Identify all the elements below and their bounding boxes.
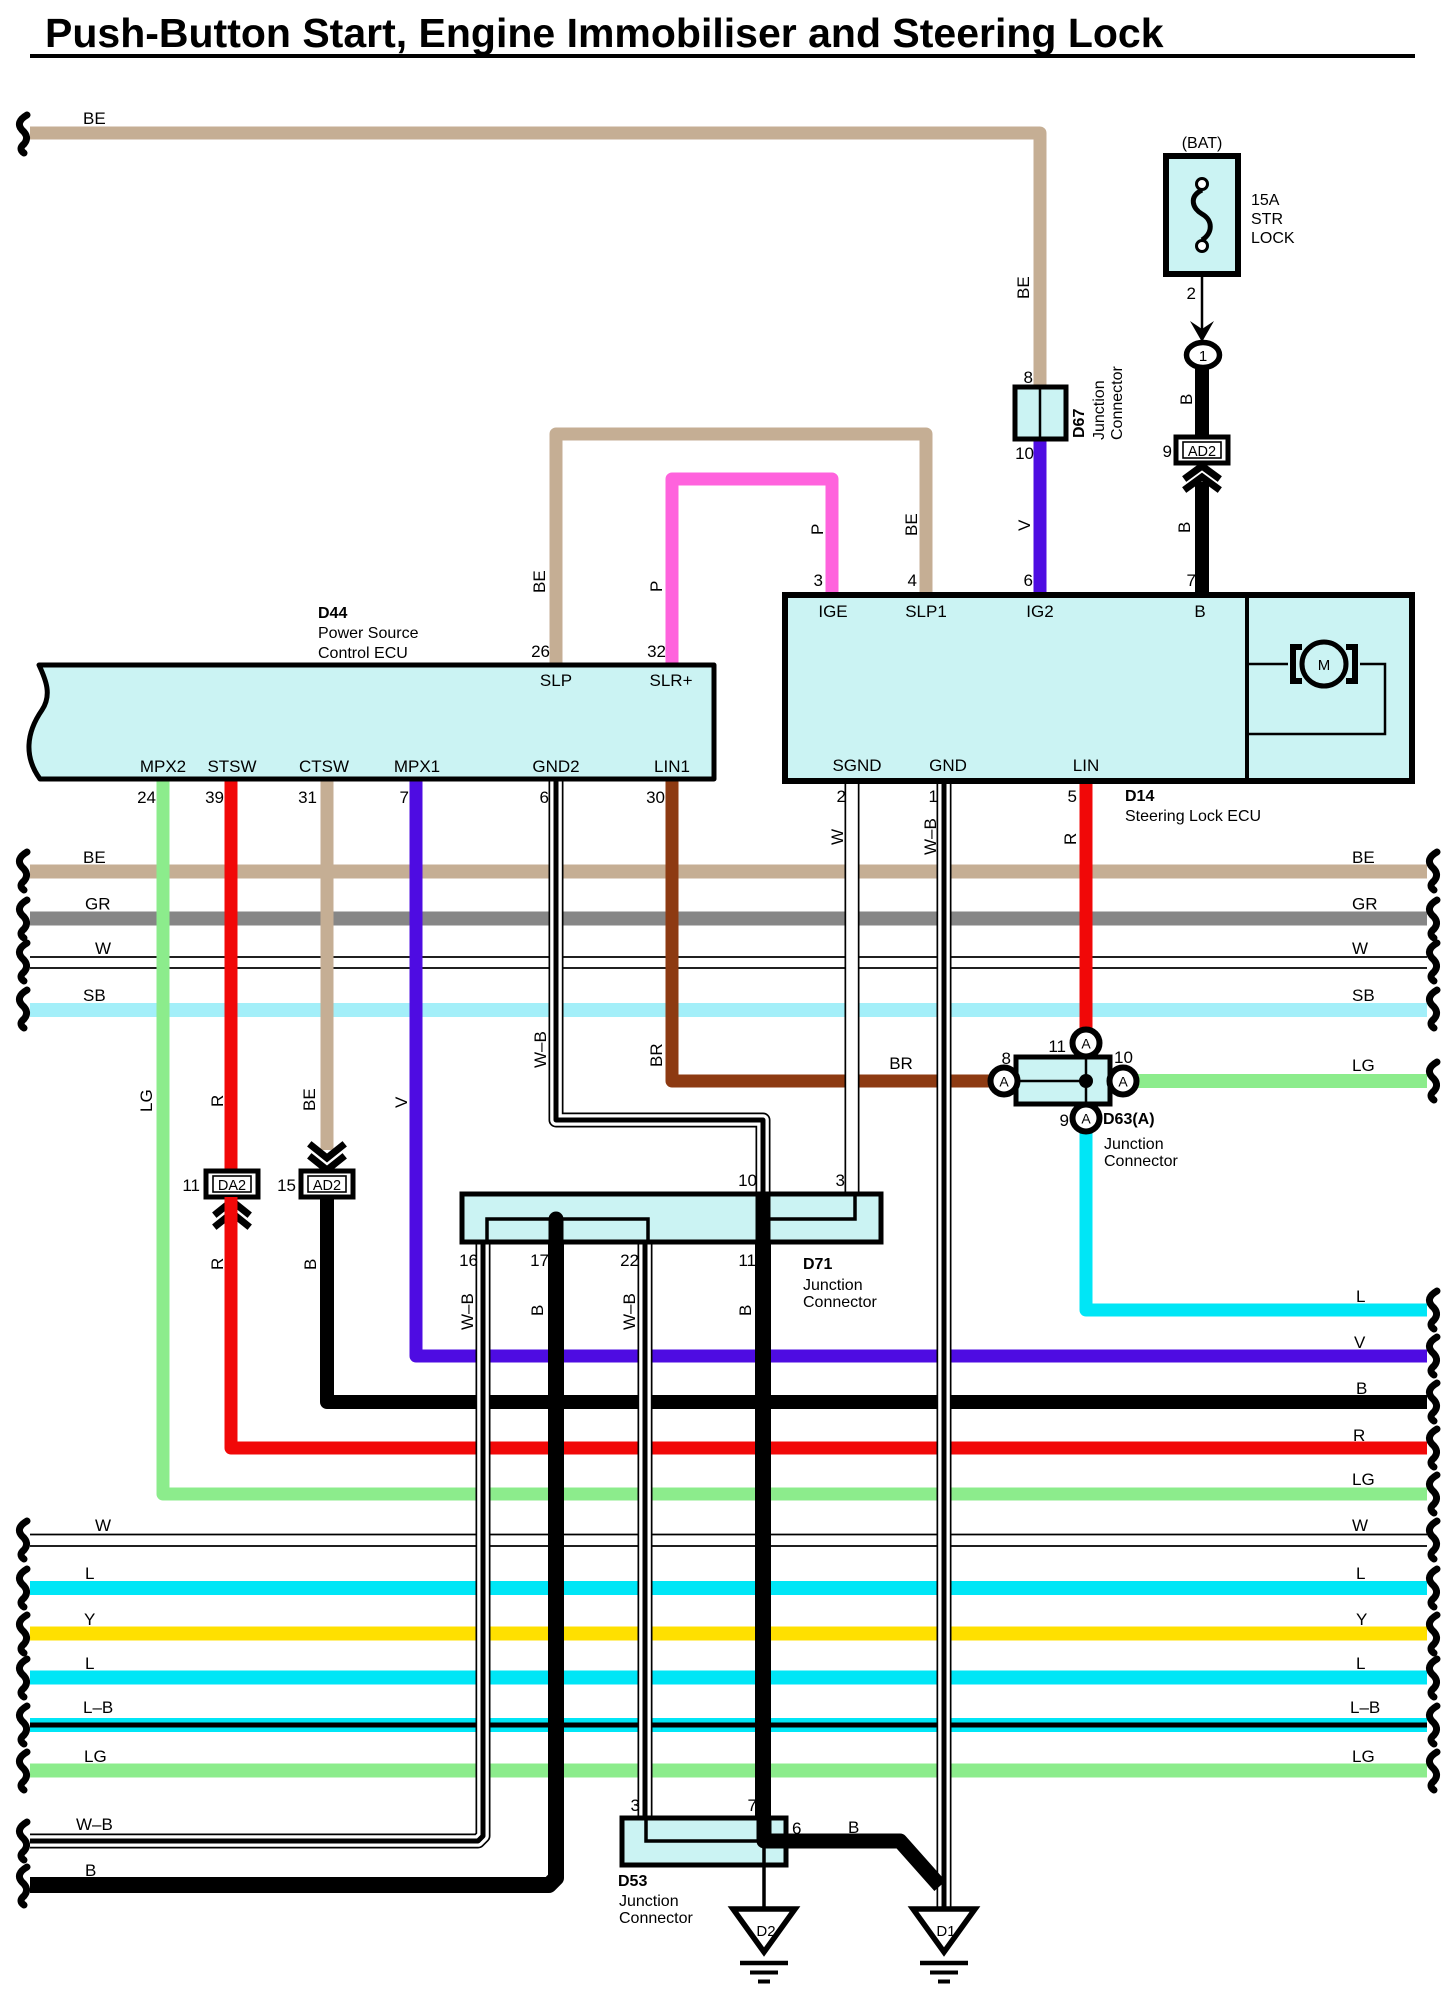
svg-text:15A: 15A: [1251, 192, 1280, 209]
svg-text:10: 10: [1114, 1048, 1133, 1067]
svg-text:STR: STR: [1251, 211, 1283, 228]
squiggle L right end: [1429, 1291, 1437, 1329]
svg-text:W–B: W–B: [620, 1293, 639, 1330]
junction D71 internal B stub: [549, 1219, 564, 1242]
wire BR LIN1 path: [672, 779, 995, 1081]
svg-text:M: M: [1318, 657, 1331, 674]
svg-text:11: 11: [1048, 1037, 1066, 1056]
svg-text:9: 9: [1060, 1111, 1069, 1130]
svg-text:Connector: Connector: [1109, 366, 1126, 440]
squiggle BE left: [19, 852, 27, 890]
svg-text:W: W: [1352, 939, 1368, 958]
wire GR bus: [30, 912, 1427, 926]
svg-text:Junction: Junction: [619, 1893, 679, 1910]
svg-text:A: A: [999, 1074, 1009, 1090]
squiggle W left: [19, 943, 27, 981]
svg-text:CTSW: CTSW: [299, 757, 349, 776]
svg-text:3: 3: [631, 1796, 640, 1815]
svg-text:Control ECU: Control ECU: [318, 645, 408, 662]
chevrons up below DA2: [217, 1201, 247, 1213]
squiggle Y left: [19, 1615, 27, 1653]
svg-text:6: 6: [792, 1819, 801, 1838]
squiggle GR left: [19, 900, 27, 938]
svg-text:L: L: [1356, 1564, 1365, 1583]
svg-text:R: R: [208, 1258, 227, 1270]
ecu D44 Power Source Control ECU: [29, 665, 714, 779]
svg-text:(BAT): (BAT): [1182, 135, 1223, 152]
svg-text:LG: LG: [1352, 1470, 1375, 1489]
junction D71 internal B through: [756, 1194, 771, 1242]
svg-text:GND: GND: [929, 756, 967, 775]
svg-text:A: A: [1081, 1111, 1091, 1127]
ground D2: [733, 1909, 795, 1952]
svg-text:26: 26: [531, 642, 550, 661]
svg-text:L: L: [85, 1654, 94, 1673]
svg-text:A: A: [1118, 1074, 1128, 1090]
squiggle Y right: [1429, 1615, 1437, 1653]
wire D53 to D2 ground: [762, 1841, 766, 1909]
connector AD2 mid: [301, 1171, 353, 1197]
squiggle SB left: [19, 990, 27, 1028]
svg-text:Power Source: Power Source: [318, 625, 419, 642]
svg-text:BE: BE: [1352, 848, 1375, 867]
svg-text:A: A: [1081, 1036, 1091, 1052]
svg-text:B: B: [1356, 1379, 1367, 1398]
svg-text:LG: LG: [1352, 1747, 1375, 1766]
svg-text:Push-Button Start, Engine Immo: Push-Button Start, Engine Immobiliser an…: [45, 10, 1164, 56]
svg-text:LIN: LIN: [1073, 756, 1099, 775]
svg-text:1: 1: [929, 787, 938, 806]
junction D63A circle bottom: [1073, 1105, 1100, 1132]
svg-text:BE: BE: [530, 570, 549, 593]
svg-text:V: V: [1354, 1333, 1366, 1352]
wire BE top horizontal to D67: [30, 133, 1040, 390]
wire L D63 down and right: [1086, 1125, 1427, 1310]
svg-text:Junction: Junction: [1091, 380, 1108, 440]
junction D71 internal thin right: [763, 1194, 855, 1219]
junction D53 internal thin: [646, 1818, 764, 1841]
squiggle LG right end: [1429, 1475, 1437, 1513]
squiggle BE top left: [19, 115, 27, 153]
wire B D71 pin17 to bus: [30, 1244, 556, 1885]
fuse 15A STR LOCK: [1166, 156, 1238, 274]
svg-text:W: W: [95, 939, 111, 958]
svg-text:D14: D14: [1125, 788, 1154, 805]
junction D71 dot 2: [756, 1212, 771, 1227]
wire R D14 LIN to D63: [1080, 779, 1093, 1036]
svg-text:IG2: IG2: [1026, 602, 1053, 621]
svg-text:L: L: [85, 1564, 94, 1583]
wire BE CTSW: [321, 779, 334, 1150]
svg-text:V: V: [392, 1096, 411, 1108]
junction D53 dot: [757, 1834, 772, 1849]
svg-text:31: 31: [298, 788, 317, 807]
svg-text:STSW: STSW: [207, 757, 256, 776]
junction D63A dot: [1079, 1074, 1093, 1088]
svg-text:LIN1: LIN1: [654, 757, 690, 776]
svg-text:2: 2: [1187, 284, 1196, 303]
svg-text:LG: LG: [84, 1747, 107, 1766]
wire R DA2 down: [231, 1197, 1427, 1448]
svg-text:22: 22: [620, 1251, 639, 1270]
chevrons up below AD2 top: [1187, 466, 1217, 477]
svg-text:BE: BE: [300, 1088, 319, 1111]
wire LG bus right: [1120, 1074, 1427, 1088]
squiggle W-B bus left: [19, 1822, 27, 1860]
junction D67: [1015, 387, 1066, 439]
svg-text:BE: BE: [1014, 276, 1033, 299]
svg-text:39: 39: [205, 788, 224, 807]
squiggle LG lower right: [1429, 1752, 1437, 1790]
svg-text:P: P: [808, 524, 827, 535]
svg-text:7: 7: [400, 788, 409, 807]
svg-text:L–B: L–B: [83, 1698, 113, 1717]
svg-text:LG: LG: [1352, 1056, 1375, 1075]
svg-text:2: 2: [837, 787, 846, 806]
squiggle L-B left: [19, 1706, 27, 1744]
wire LG MPX2 path: [163, 779, 1427, 1494]
svg-text:11: 11: [182, 1176, 200, 1195]
svg-text:DA2: DA2: [218, 1178, 246, 1194]
squiggle BE right: [1429, 852, 1437, 890]
svg-text:17: 17: [530, 1251, 549, 1270]
svg-text:Y: Y: [1356, 1610, 1367, 1629]
svg-text:D67: D67: [1071, 409, 1088, 438]
svg-text:9: 9: [1163, 442, 1172, 461]
svg-text:W: W: [828, 829, 847, 845]
squiggle L2 left: [19, 1659, 27, 1697]
svg-text:BE: BE: [83, 109, 106, 128]
squiggle W lower right: [1429, 1521, 1437, 1559]
ecu D14 Steering Lock ECU: [785, 595, 1412, 781]
wire BE bus: [30, 865, 1427, 879]
oval connector 1: [1187, 343, 1220, 368]
svg-text:7: 7: [748, 1796, 757, 1815]
svg-text:D1: D1: [936, 1923, 955, 1940]
squiggle B bus left: [19, 1867, 27, 1905]
svg-text:3: 3: [814, 571, 823, 590]
svg-text:6: 6: [540, 788, 549, 807]
motor M circuit: [1249, 663, 1288, 666]
svg-text:D53: D53: [618, 1873, 647, 1890]
svg-text:SGND: SGND: [832, 756, 881, 775]
svg-text:SLR+: SLR+: [650, 671, 693, 690]
svg-text:B: B: [736, 1305, 755, 1316]
wire W-B GND to D1: [937, 779, 952, 1907]
svg-text:AD2: AD2: [313, 1178, 341, 1194]
squiggle W right: [1429, 943, 1437, 981]
wire V D67 to D14 IG2: [1034, 437, 1047, 597]
svg-text:D71: D71: [803, 1256, 832, 1273]
wire W bus upper: [30, 956, 1427, 958]
svg-text:B: B: [1175, 522, 1194, 533]
svg-text:LG: LG: [137, 1089, 156, 1112]
svg-text:15: 15: [277, 1176, 296, 1195]
svg-text:L: L: [1356, 1287, 1365, 1306]
svg-text:11: 11: [738, 1251, 756, 1270]
svg-text:MPX1: MPX1: [394, 757, 440, 776]
svg-text:B: B: [848, 1818, 859, 1837]
svg-text:16: 16: [459, 1251, 478, 1270]
svg-text:LOCK: LOCK: [1251, 230, 1295, 247]
svg-text:Junction: Junction: [803, 1277, 863, 1294]
svg-text:7: 7: [1187, 571, 1196, 590]
squiggle L-B right: [1429, 1706, 1437, 1744]
svg-text:W–B: W–B: [76, 1815, 113, 1834]
svg-text:Connector: Connector: [803, 1294, 877, 1311]
junction D63A circle top: [1073, 1030, 1100, 1057]
svg-text:Connector: Connector: [619, 1910, 693, 1927]
squiggle B right end: [1429, 1383, 1437, 1421]
squiggle GR right: [1429, 900, 1437, 938]
svg-text:L–B: L–B: [1350, 1698, 1380, 1717]
wire L bus 2: [30, 1671, 1427, 1685]
wire V MPX1 path: [416, 779, 1427, 1356]
squiggle LG lower left: [19, 1752, 27, 1790]
svg-text:5: 5: [1068, 787, 1077, 806]
wire BE D44 SLP to D14 SLP1: [556, 434, 926, 665]
svg-text:R: R: [208, 1095, 227, 1107]
svg-text:4: 4: [908, 571, 917, 590]
svg-text:Junction: Junction: [1104, 1136, 1164, 1153]
svg-text:W: W: [95, 1516, 111, 1535]
svg-text:Y: Y: [84, 1610, 95, 1629]
wire L-B bus: [30, 1718, 1427, 1732]
junction D71: [462, 1194, 881, 1242]
svg-text:D44: D44: [318, 605, 347, 622]
squiggle SB right: [1429, 990, 1437, 1028]
squiggle L2 right: [1429, 1659, 1437, 1697]
svg-text:32: 32: [647, 642, 666, 661]
svg-text:SLP1: SLP1: [905, 602, 947, 621]
wire B AD2 to D14: [1195, 482, 1209, 597]
svg-text:GR: GR: [85, 895, 111, 914]
svg-text:D63(A): D63(A): [1103, 1111, 1155, 1128]
connector DA2: [206, 1171, 258, 1197]
chevrons down above AD2 mid: [312, 1146, 342, 1158]
junction D53 out right: [764, 1834, 786, 1849]
svg-text:Steering Lock ECU: Steering Lock ECU: [1125, 808, 1261, 825]
squiggle V right end: [1429, 1337, 1437, 1375]
svg-text:SB: SB: [1352, 986, 1375, 1005]
squiggle L1 right: [1429, 1569, 1437, 1607]
svg-text:GND2: GND2: [532, 757, 579, 776]
wire R STSW upper: [225, 779, 238, 1173]
wire LG bus lower: [30, 1764, 1427, 1778]
svg-text:B: B: [85, 1861, 96, 1880]
wire B D71 pin11 to D53: [755, 1244, 771, 1820]
svg-text:R: R: [1353, 1426, 1365, 1445]
svg-text:B: B: [1177, 394, 1196, 405]
svg-text:10: 10: [1015, 444, 1034, 463]
title underline: [30, 54, 1415, 58]
svg-text:GR: GR: [1352, 895, 1378, 914]
svg-text:W–B: W–B: [458, 1293, 477, 1330]
svg-text:BE: BE: [83, 848, 106, 867]
wire P D44 SLR+ to D14 IGE: [672, 479, 832, 665]
squiggle W lower left: [19, 1521, 27, 1559]
squiggle L1 left: [19, 1569, 27, 1607]
wire W-B GND2 route to D71 pin10: [556, 779, 763, 1196]
svg-text:Connector: Connector: [1104, 1153, 1178, 1170]
junction D71 dot 1: [549, 1212, 564, 1227]
squiggle LG right: [1429, 1062, 1437, 1100]
junction D63A circle left: [991, 1068, 1018, 1095]
svg-text:8: 8: [1024, 368, 1033, 387]
junction D53: [622, 1818, 786, 1865]
svg-text:SLP: SLP: [540, 671, 572, 690]
svg-text:8: 8: [1002, 1049, 1011, 1068]
connector AD2 top: [1176, 437, 1228, 463]
svg-text:W–B: W–B: [921, 818, 940, 855]
svg-text:3: 3: [836, 1171, 845, 1190]
svg-text:B: B: [1194, 602, 1205, 621]
svg-text:BE: BE: [902, 513, 921, 536]
arrow down: [1190, 321, 1214, 342]
wire W-B D71 pin22 to D53: [638, 1244, 653, 1820]
wire W-B D71 pin16 to bus: [30, 1244, 483, 1841]
wire L bus 1: [30, 1581, 1427, 1595]
junction D63A circle right: [1110, 1068, 1137, 1095]
junction D53 internal B: [757, 1818, 772, 1841]
svg-text:24: 24: [137, 788, 156, 807]
svg-text:P: P: [647, 581, 666, 592]
squiggle R right end: [1429, 1429, 1437, 1467]
svg-text:W: W: [1352, 1516, 1368, 1535]
wire SB bus: [30, 1003, 1427, 1017]
svg-text:AD2: AD2: [1188, 444, 1216, 460]
wire fuse to arrow: [1201, 272, 1204, 341]
wire B oval to AD2: [1195, 367, 1209, 440]
junction D63A: [1016, 1057, 1110, 1104]
svg-text:BR: BR: [647, 1043, 666, 1067]
svg-text:10: 10: [738, 1171, 757, 1190]
svg-text:B: B: [301, 1259, 320, 1270]
wire B AD2 down: [327, 1197, 1427, 1402]
svg-text:IGE: IGE: [818, 602, 847, 621]
svg-text:L: L: [1356, 1654, 1365, 1673]
ground D1: [913, 1909, 975, 1952]
svg-text:V: V: [1015, 519, 1034, 531]
svg-text:SB: SB: [83, 986, 106, 1005]
svg-text:6: 6: [1024, 571, 1033, 590]
svg-text:D2: D2: [756, 1923, 775, 1940]
svg-text:B: B: [528, 1305, 547, 1316]
svg-text:1: 1: [1199, 348, 1207, 365]
svg-text:W–B: W–B: [531, 1031, 550, 1068]
svg-text:30: 30: [646, 788, 665, 807]
wire W SGND to D71 pin3: [845, 779, 860, 1196]
wire W bus lower: [30, 1534, 1427, 1536]
junction D71 internal thin left: [487, 1219, 648, 1242]
svg-text:MPX2: MPX2: [140, 757, 186, 776]
wire Y bus: [30, 1627, 1427, 1641]
wire B D53 to D1 join: [770, 1841, 940, 1886]
svg-text:R: R: [1061, 833, 1080, 845]
svg-text:BR: BR: [889, 1054, 913, 1073]
